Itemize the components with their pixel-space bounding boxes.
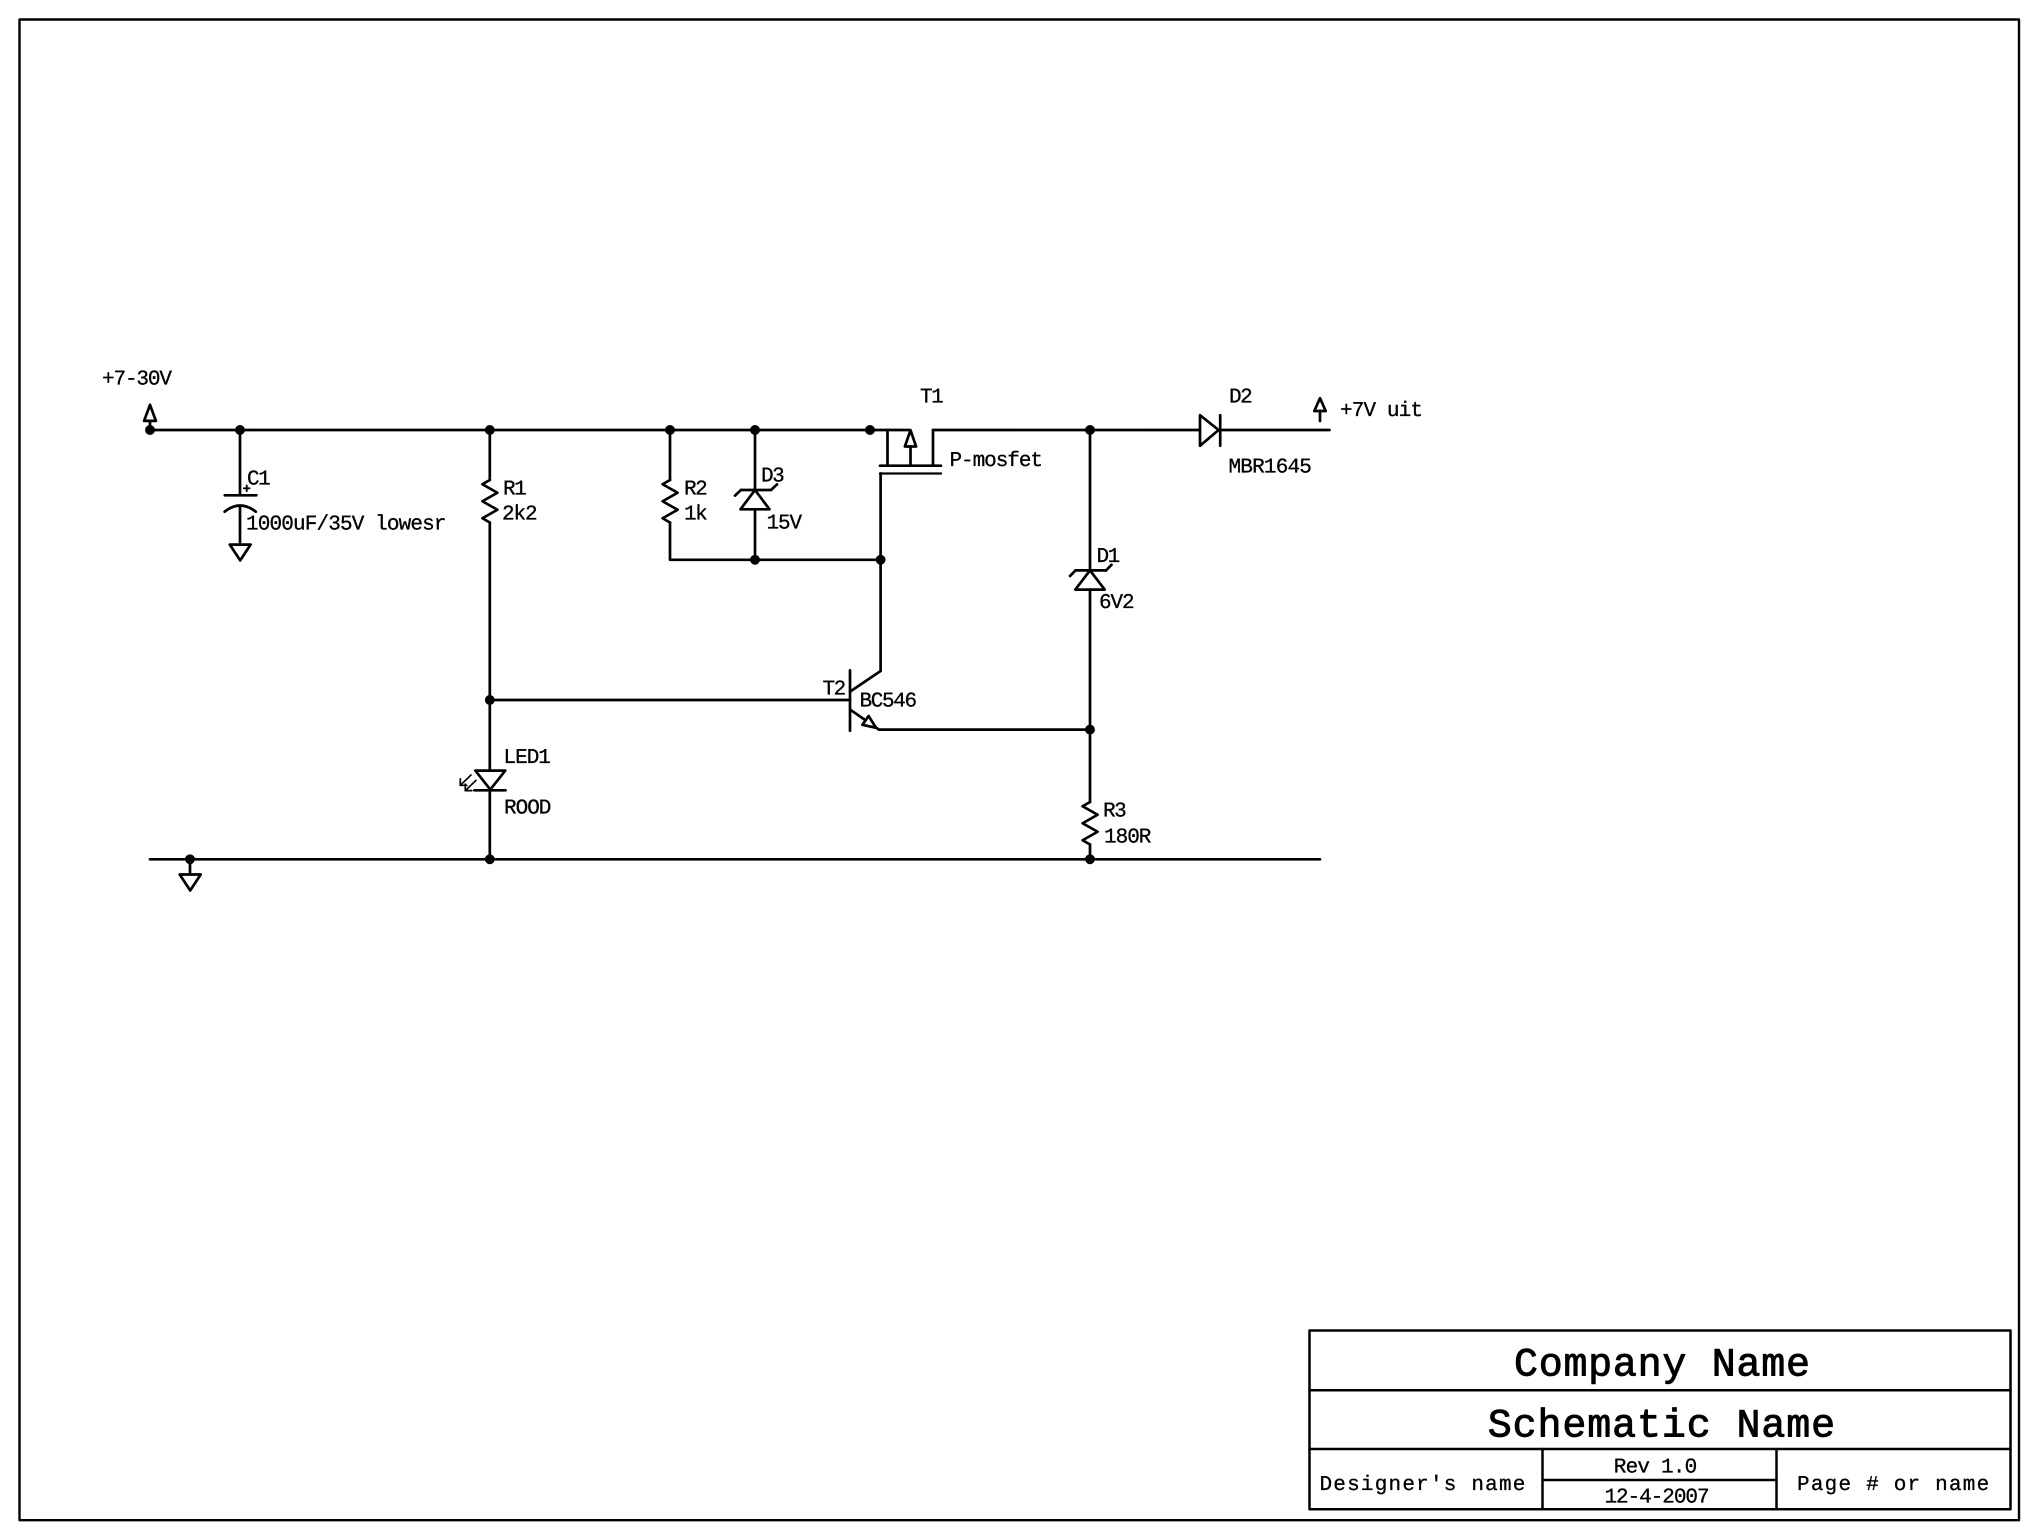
wire top rail left <box>150 429 909 432</box>
wire gate to T2 collector <box>879 560 882 671</box>
ground below C1 <box>230 545 251 561</box>
junction D1 top <box>1086 426 1093 433</box>
wire LED1 to ground rail <box>488 790 491 859</box>
junction near T1 <box>866 426 873 433</box>
svg-text:Page # or name: Page # or name <box>1797 1474 1989 1497</box>
junction R1 top <box>486 426 493 433</box>
svg-text:LED1: LED1 <box>504 747 551 770</box>
svg-text:D1: D1 <box>1097 546 1121 569</box>
svg-text:1k: 1k <box>684 504 708 527</box>
svg-text:C1: C1 <box>247 469 271 492</box>
svg-text:Designer's name: Designer's name <box>1320 1474 1526 1497</box>
wire R2 bottom <box>670 523 881 560</box>
svg-text:MBR1645: MBR1645 <box>1229 457 1312 480</box>
svg-text:6V2: 6V2 <box>1099 592 1135 615</box>
svg-text:1000uF/35V lowesr: 1000uF/35V lowesr <box>246 514 447 537</box>
svg-text:R3: R3 <box>1103 801 1127 824</box>
wire gate lead <box>879 474 882 560</box>
resistor R1 <box>482 430 497 523</box>
wire emitter of T2 <box>879 728 1090 731</box>
power flag +7V uit <box>1314 398 1325 421</box>
junction ground <box>186 856 193 863</box>
svg-text:D2: D2 <box>1229 387 1253 410</box>
junction emitter at D1 line <box>1086 726 1093 733</box>
junction gate node <box>877 556 884 563</box>
wire D1 to R3 <box>1089 590 1092 802</box>
junction base wire at R1 <box>486 696 493 703</box>
svg-text:Company Name: Company Name <box>1514 1344 1810 1389</box>
svg-text:R2: R2 <box>684 479 708 502</box>
LED LED1 <box>460 771 505 791</box>
diode D2 <box>1200 415 1220 446</box>
transistor T2 BC546 <box>850 670 881 730</box>
resistor R3 <box>1083 802 1098 859</box>
transistor T1 P-mosfet <box>880 430 941 474</box>
svg-text:ROOD: ROOD <box>504 798 551 821</box>
svg-text:Schematic Name: Schematic Name <box>1488 1404 1835 1449</box>
svg-text:2k2: 2k2 <box>502 504 538 527</box>
wire R1 to LED1 <box>488 523 491 771</box>
svg-text:15V: 15V <box>767 513 803 536</box>
junction LED1 bottom <box>486 856 493 863</box>
svg-text:R1: R1 <box>503 479 527 502</box>
capacitor C1 <box>225 430 257 545</box>
svg-text:Rev 1.0: Rev 1.0 <box>1614 1456 1698 1479</box>
ground symbol bottom left <box>180 859 201 890</box>
junction at power flag <box>146 426 153 433</box>
svg-text:T2: T2 <box>823 679 847 702</box>
svg-text:T1: T1 <box>920 387 944 410</box>
zener diode D3 <box>735 430 777 560</box>
junction R2 top <box>666 426 673 433</box>
svg-text:+7V uit: +7V uit <box>1340 400 1423 423</box>
svg-text:12-4-2007: 12-4-2007 <box>1604 1487 1709 1510</box>
svg-text:BC546: BC546 <box>860 691 918 714</box>
wire top rail right <box>933 429 1200 432</box>
title block <box>1310 1331 2011 1510</box>
power flag +7-30V <box>144 405 156 430</box>
svg-text:180R: 180R <box>1104 827 1152 850</box>
svg-text:P-mosfet: P-mosfet <box>950 450 1044 473</box>
wire D2 to output <box>1220 429 1329 432</box>
junction D3 bottom <box>751 556 758 563</box>
zener diode D1 <box>1070 430 1112 590</box>
junction D3 top <box>751 426 758 433</box>
svg-text:D3: D3 <box>761 466 785 489</box>
svg-text:+7-30V: +7-30V <box>102 369 172 392</box>
junction R3 bottom <box>1086 856 1093 863</box>
junction C1 top <box>236 426 243 433</box>
wire bottom rail <box>150 858 1320 861</box>
wire base of T2 <box>490 699 850 702</box>
resistor R2 <box>663 430 678 523</box>
